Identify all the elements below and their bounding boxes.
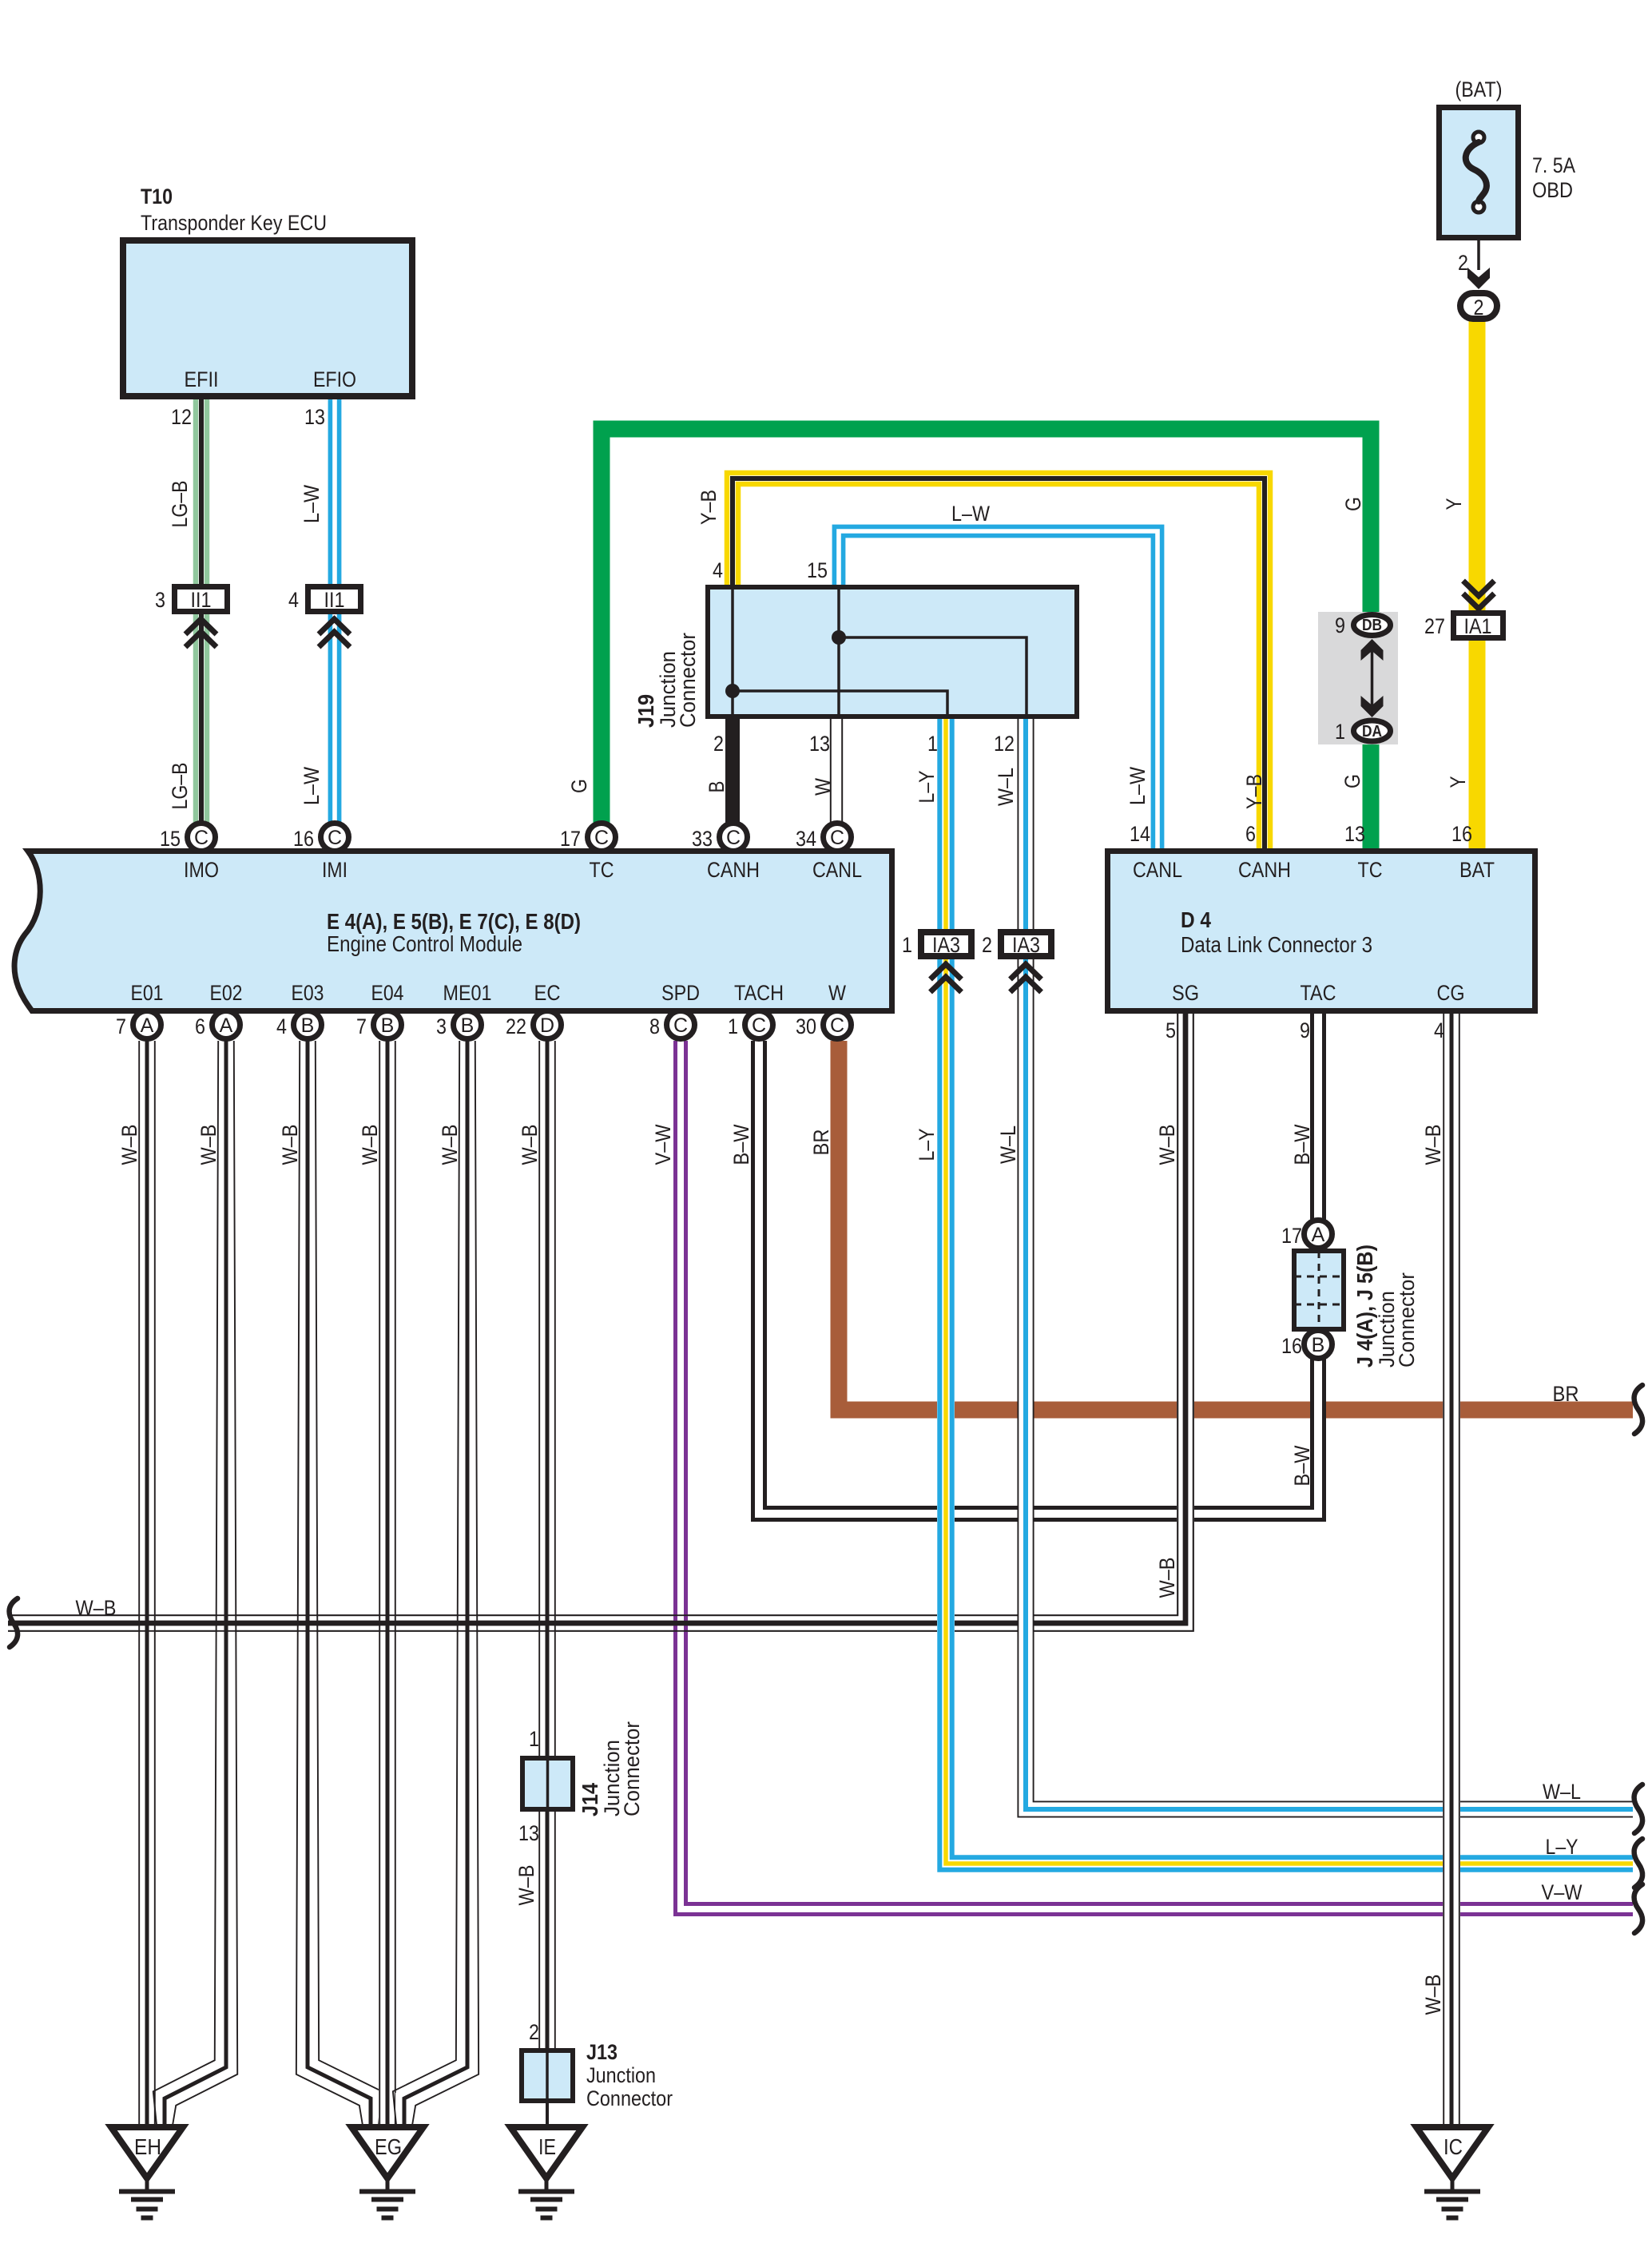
svg-text:B–W: B–W <box>1290 1445 1314 1486</box>
ECM bottom pin connector A x283 <box>212 1011 240 1039</box>
connector IA3 pin2 <box>1001 932 1051 992</box>
svg-text:Y: Y <box>1442 498 1466 510</box>
svg-text:A: A <box>141 1014 154 1037</box>
svg-text:C: C <box>673 1014 688 1037</box>
svg-text:13: 13 <box>1344 822 1365 846</box>
svg-text:G: G <box>1341 497 1365 511</box>
svg-text:B: B <box>301 1014 315 1037</box>
svg-text:W–L: W–L <box>994 768 1018 806</box>
wire W-B ME01 to EG ground <box>393 1041 479 2126</box>
wire W-B bus overdraw at crossings <box>8 1014 1193 1631</box>
svg-text:D: D <box>540 1014 554 1037</box>
wire Y from fuse to D4 BAT pin16 <box>1469 321 1486 848</box>
svg-text:OBD: OBD <box>1532 178 1573 202</box>
svg-text:D 4: D 4 <box>1181 907 1211 932</box>
svg-text:Engine Control Module: Engine Control Module <box>327 931 522 956</box>
svg-text:34: 34 <box>796 827 816 851</box>
svg-text:J19: J19 <box>633 694 658 728</box>
svg-text:TACH: TACH <box>734 981 784 1005</box>
svg-text:CANH: CANH <box>1238 858 1291 882</box>
svg-text:EFII: EFII <box>185 367 219 391</box>
svg-text:TC: TC <box>1358 858 1383 882</box>
ECM top pin connector C x753 <box>588 824 616 852</box>
svg-text:II1: II1 <box>191 588 212 612</box>
connector IA1 with chevrons <box>1454 581 1503 638</box>
svg-text:4: 4 <box>1434 1018 1444 1042</box>
svg-text:A: A <box>1312 1224 1325 1246</box>
fuse element symbol <box>1466 132 1487 212</box>
svg-text:EFIO: EFIO <box>313 367 356 391</box>
svg-text:5: 5 <box>1166 1018 1176 1042</box>
svg-text:2: 2 <box>1474 296 1484 320</box>
wire B-W ECM TACH pin1 to D4 TAC pin9 via J4/J5 <box>753 1014 1324 1520</box>
svg-text:7: 7 <box>116 1014 126 1038</box>
svg-text:ME01: ME01 <box>443 981 492 1005</box>
wire Y-B from J19 pin4 over to D4 CANH pin6 <box>727 473 1270 848</box>
wire W-B E03 to EG ground <box>296 1041 382 2126</box>
svg-text:II1: II1 <box>324 588 345 612</box>
connector A on J4/J5 <box>1305 1221 1332 1249</box>
svg-text:W: W <box>828 981 846 1005</box>
svg-text:7: 7 <box>356 1014 367 1038</box>
svg-text:W–B: W–B <box>197 1125 220 1165</box>
wire G from ECM TC pin17 up over to DB <box>602 429 1371 824</box>
svg-text:B–W: B–W <box>1290 1124 1314 1165</box>
svg-text:TAC: TAC <box>1301 981 1336 1005</box>
svg-text:8: 8 <box>649 1014 660 1038</box>
svg-text:(BAT): (BAT) <box>1455 77 1503 101</box>
svg-text:3: 3 <box>436 1014 447 1038</box>
svg-text:1: 1 <box>529 1727 539 1751</box>
wire LG-B from T10 EFII to ECM IMO <box>196 399 207 823</box>
svg-text:Connector: Connector <box>620 1721 644 1816</box>
svg-text:E03: E03 <box>292 981 324 1005</box>
svg-text:4: 4 <box>288 588 299 612</box>
svg-text:E01: E01 <box>131 981 164 1005</box>
ECM bottom pin connector B x485 <box>374 1011 402 1039</box>
svg-text:L–W: L–W <box>300 767 324 805</box>
ground IC <box>1416 2127 1488 2218</box>
svg-text:13: 13 <box>518 1821 539 1845</box>
svg-text:EH: EH <box>134 2134 161 2159</box>
svg-text:17: 17 <box>560 827 581 851</box>
wire W-B E01 to EH ground <box>139 1041 155 2126</box>
svg-text:W–B: W–B <box>358 1125 382 1165</box>
shielded pair gray block <box>1318 612 1398 744</box>
wire W-B E02 to EH ground <box>153 1041 237 2126</box>
svg-text:BAT: BAT <box>1459 858 1495 882</box>
svg-text:BR: BR <box>1553 1382 1579 1406</box>
svg-text:IA1: IA1 <box>1464 614 1492 638</box>
svg-text:G: G <box>1340 774 1364 788</box>
svg-text:30: 30 <box>796 1014 816 1038</box>
ECM bottom pin connector C x1048 <box>824 1011 852 1039</box>
ECM top pin connector C x252 <box>188 824 216 852</box>
component T10 Transponder Key ECU box <box>123 240 412 396</box>
svg-text:16: 16 <box>293 827 314 851</box>
svg-text:9: 9 <box>1335 613 1345 637</box>
connector DB ellipse <box>1354 615 1391 636</box>
svg-text:13: 13 <box>304 405 325 429</box>
svg-text:2: 2 <box>982 933 992 957</box>
svg-text:IMI: IMI <box>322 858 347 882</box>
svg-text:C: C <box>830 1014 844 1037</box>
connector DA ellipse <box>1354 721 1391 741</box>
svg-text:W–B: W–B <box>1421 1125 1445 1165</box>
svg-text:EG: EG <box>375 2134 402 2159</box>
svg-text:EC: EC <box>534 981 561 1005</box>
svg-text:W–B: W–B <box>1155 1125 1179 1165</box>
wire W-B from D4 CG pin4 to IC ground <box>1444 1014 1459 2126</box>
connector II1 pin3 <box>175 587 228 648</box>
ECM bottom pin connector B x385 <box>294 1011 322 1039</box>
svg-text:J14: J14 <box>578 1783 602 1816</box>
svg-text:C: C <box>752 1014 766 1037</box>
svg-text:B: B <box>1312 1334 1325 1356</box>
ground EH <box>111 2127 183 2218</box>
ECM top pin connector C x1048 <box>824 824 852 852</box>
svg-text:L–W: L–W <box>300 485 324 523</box>
wire G from DA down to D4 TC pin13 <box>1363 743 1380 848</box>
svg-text:Junction: Junction <box>586 2063 656 2087</box>
svg-text:C: C <box>594 827 609 849</box>
svg-text:L–Y: L–Y <box>915 1129 939 1161</box>
break mark L-Y right <box>1634 1839 1642 1888</box>
svg-text:2: 2 <box>1458 251 1468 275</box>
ground IE <box>510 2127 582 2218</box>
svg-text:C: C <box>328 827 342 849</box>
svg-text:7. 5A: 7. 5A <box>1532 153 1575 177</box>
svg-text:6: 6 <box>1245 822 1256 846</box>
wire L-W from T10 EFIO to ECM IMI <box>330 399 339 823</box>
ECM box E4/E5/E7/E8 Engine Control Module <box>14 852 892 1011</box>
fuse output lead with arrow <box>1467 240 1490 289</box>
svg-text:E 4(A), E 5(B), E 7(C), E 8(D): E 4(A), E 5(B), E 7(C), E 8(D) <box>327 909 581 934</box>
svg-text:C: C <box>830 827 844 849</box>
svg-text:15: 15 <box>160 827 181 851</box>
ECM top pin connector C x918 <box>720 824 748 852</box>
svg-text:W–B: W–B <box>514 1865 538 1906</box>
break mark BR right <box>1634 1385 1642 1434</box>
component J14 Junction Connector <box>522 1758 573 1809</box>
svg-text:12: 12 <box>171 405 192 429</box>
break mark W-L right <box>1634 1784 1642 1833</box>
arrow link DB to DA <box>1361 639 1384 717</box>
svg-text:LG–B: LG–B <box>168 763 192 810</box>
connector 2 stadium below fuse <box>1460 293 1497 320</box>
svg-text:IE: IE <box>538 2134 556 2159</box>
wire W from J19 pin13 to ECM CANL pin34 <box>831 717 842 823</box>
svg-text:16: 16 <box>1451 822 1472 846</box>
svg-text:B: B <box>461 1014 475 1037</box>
svg-text:DA: DA <box>1362 723 1382 740</box>
svg-text:IMO: IMO <box>184 858 219 882</box>
svg-text:E02: E02 <box>210 981 243 1005</box>
ground EG <box>351 2127 423 2218</box>
svg-text:IC: IC <box>1444 2134 1463 2159</box>
svg-text:W–B: W–B <box>518 1125 542 1165</box>
wire L-W from J19 pin15 over to D4 CANL pin14 <box>834 526 1162 848</box>
svg-text:L–W: L–W <box>951 502 990 526</box>
ECM bottom pin connector D x685 <box>534 1011 562 1039</box>
svg-text:17: 17 <box>1281 1224 1302 1248</box>
break mark W-B bus left <box>10 1598 18 1647</box>
wire W-B EC to J14/J13/IE ground <box>539 1041 555 2127</box>
svg-text:SPD: SPD <box>661 981 700 1005</box>
connector II1 pin4 <box>308 587 361 648</box>
svg-text:BR: BR <box>809 1129 833 1156</box>
svg-text:C: C <box>194 827 208 849</box>
ECM bottom pin connector B x585 <box>454 1011 482 1039</box>
break mark V-W right <box>1634 1884 1642 1933</box>
svg-text:IA3: IA3 <box>1012 933 1040 957</box>
svg-text:Connector: Connector <box>586 2086 673 2110</box>
svg-text:1: 1 <box>1335 720 1345 744</box>
wire W-B E04 to EG ground <box>379 1041 395 2126</box>
svg-text:CANL: CANL <box>812 858 862 882</box>
svg-text:B–W: B–W <box>729 1124 753 1165</box>
svg-text:Transponder Key ECU: Transponder Key ECU <box>141 211 327 235</box>
svg-text:4: 4 <box>276 1014 287 1038</box>
svg-text:L–Y: L–Y <box>1546 1835 1579 1859</box>
svg-text:13: 13 <box>809 732 830 756</box>
svg-text:16: 16 <box>1281 1334 1302 1358</box>
svg-text:B: B <box>381 1014 395 1037</box>
ECM bottom pin connector C x950 <box>745 1011 773 1039</box>
svg-text:CANL: CANL <box>1133 858 1182 882</box>
svg-text:W–B: W–B <box>1421 1975 1445 2015</box>
svg-text:SG: SG <box>1172 981 1199 1005</box>
svg-text:C: C <box>726 827 741 849</box>
svg-text:W–B: W–B <box>438 1125 462 1165</box>
svg-text:L–Y: L–Y <box>915 771 939 804</box>
svg-text:CG: CG <box>1437 981 1465 1005</box>
svg-text:22: 22 <box>506 1014 526 1038</box>
svg-text:G: G <box>567 779 591 793</box>
svg-text:T10: T10 <box>141 185 173 208</box>
wire W-B bus from D4 SG pin5 left to edge <box>8 1014 1193 1631</box>
svg-text:IA3: IA3 <box>932 933 960 957</box>
svg-text:B: B <box>705 781 729 793</box>
wire BR brown from ECM W pin 30 to right edge <box>839 1041 1633 1410</box>
component J19 Junction Connector box <box>708 587 1077 717</box>
svg-text:Y–B: Y–B <box>697 490 721 525</box>
connector B on J4/J5 <box>1305 1331 1332 1359</box>
svg-text:W–B: W–B <box>278 1125 302 1165</box>
svg-text:1: 1 <box>902 933 912 957</box>
wire B from J19 pin2 to ECM CANH pin33 <box>725 717 740 823</box>
svg-text:V–W: V–W <box>651 1124 675 1165</box>
component J13 Junction Connector <box>522 2050 573 2101</box>
svg-text:2: 2 <box>713 732 724 756</box>
svg-text:15: 15 <box>807 558 828 582</box>
J19 internal circuit lines <box>725 587 1027 717</box>
svg-text:14: 14 <box>1130 822 1150 846</box>
svg-text:LG–B: LG–B <box>168 481 192 528</box>
svg-text:CANH: CANH <box>707 858 760 882</box>
svg-text:9: 9 <box>1300 1018 1310 1042</box>
svg-text:DB: DB <box>1362 617 1382 634</box>
svg-text:W–B: W–B <box>117 1125 141 1165</box>
wire V-W from ECM SPD pin8 to right edge <box>676 1041 1634 1915</box>
svg-text:Y: Y <box>1446 776 1470 788</box>
ECM bottom pin connector C x852 <box>667 1011 695 1039</box>
svg-text:TC: TC <box>590 858 614 882</box>
svg-text:3: 3 <box>155 588 165 612</box>
svg-text:2: 2 <box>529 2020 539 2044</box>
svg-text:4: 4 <box>713 558 723 582</box>
svg-text:L–W: L–W <box>1126 767 1150 805</box>
ECM bottom pin connector A x184 <box>133 1011 161 1039</box>
ECM top pin connector C x419 <box>321 824 349 852</box>
svg-text:33: 33 <box>692 827 713 851</box>
svg-text:E04: E04 <box>371 981 404 1005</box>
svg-text:W–L: W–L <box>1543 1780 1581 1804</box>
svg-text:J13: J13 <box>586 2040 618 2064</box>
svg-text:Y–B: Y–B <box>1242 774 1266 809</box>
svg-text:Connector: Connector <box>1395 1272 1419 1368</box>
fuse 7.5A OBD box <box>1440 108 1519 238</box>
svg-text:W–B: W–B <box>1155 1558 1179 1598</box>
wire L-Y from J19 pin1 to right edge <box>939 717 1633 1870</box>
svg-text:W: W <box>811 778 835 796</box>
svg-text:1: 1 <box>728 1014 738 1038</box>
svg-text:6: 6 <box>195 1014 205 1038</box>
svg-text:Connector: Connector <box>676 633 700 728</box>
connector IA3 pin1 <box>921 932 971 992</box>
svg-text:J 4(A), J 5(B): J 4(A), J 5(B) <box>1352 1245 1377 1368</box>
svg-text:W–L: W–L <box>996 1125 1020 1164</box>
component D4 Data Link Connector 3 box <box>1108 852 1535 1011</box>
svg-text:W–B: W–B <box>76 1596 117 1620</box>
svg-text:1: 1 <box>927 732 938 756</box>
svg-text:Data Link Connector 3: Data Link Connector 3 <box>1181 932 1372 957</box>
svg-text:V–W: V–W <box>1542 1880 1583 1904</box>
wire W-L from J19 pin12 to right edge <box>1018 717 1633 1817</box>
svg-text:A: A <box>220 1014 233 1037</box>
svg-text:27: 27 <box>1424 614 1445 638</box>
svg-text:12: 12 <box>994 732 1015 756</box>
component J4/J5 Junction Connector <box>1294 1251 1344 1329</box>
